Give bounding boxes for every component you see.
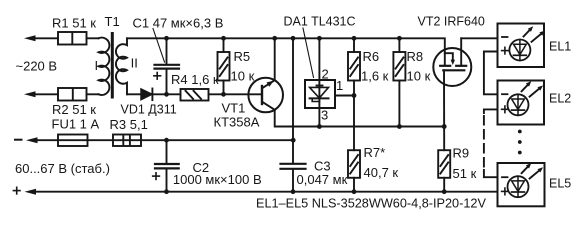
wire: DA1 pin 1 right to R6/R7 line [335,95,354,97]
node: ellipsis dot 1 between EL2 and EL5 [518,130,522,134]
node: junction C2 top on minus rail [164,138,169,143]
svg-text:1: 1 [336,78,343,93]
svg-text:R5: R5 [234,49,251,64]
node: junction R8 top rail [397,36,402,41]
LED symbol inside EL1 [509,26,545,60]
resistor R8 [393,38,405,126]
arrow: plus output arrowhead [25,189,37,195]
svg-text:EL1: EL1 [549,39,571,53]
wire: top rail left portion (secondary to VT2 drain corner) [127,38,445,65]
svg-text:10 к: 10 к [407,69,431,84]
wire: top-left AC input to R1 [33,37,58,39]
capacitor C2 [155,140,179,192]
node: ellipsis dot 3 [518,151,522,155]
label: EL2 minus terminal [502,93,508,95]
svg-text:T1: T1 [105,14,120,29]
fuse FU1 [58,135,88,147]
wire: VD1 to R4 [152,93,180,95]
node: junction R6 top rail [352,36,357,41]
LED module EL2 box [498,81,545,125]
svg-text:I: I [95,58,99,73]
node: junction VT1 emitter top rail [272,36,277,41]
wire: VT1 collector down and right along mid rail [275,110,445,127]
wire: minus output rail through FU1 and R3 [35,139,293,141]
node: junction DA1 pin3 mid rail [317,124,322,129]
svg-text:0,047 мк: 0,047 мк [297,172,348,187]
wire: plus output bottom rail [33,191,498,193]
svg-text:R1 51 к: R1 51 к [52,16,96,31]
wire: secondary bottom to VD1 [127,93,141,95]
svg-text:C1 47 мк×6,3 В: C1 47 мк×6,3 В [133,16,224,31]
label: EL1 plus terminal [502,47,509,54]
label: C2 plus polarity [153,173,160,180]
svg-text:10 к: 10 к [231,69,255,84]
label: plus sign of stabilized output [13,187,20,194]
label: EL2 plus terminal [502,106,509,113]
svg-text:II: II [131,56,138,71]
leader line from DA1 label [303,28,314,78]
wire: EL5 minus stub [484,170,498,177]
wire: EL2 plus down (dashed continuation to EL5) [484,109,498,113]
svg-text:EL1–EL5 NLS-3528WW60-4,8-IP20-: EL1–EL5 NLS-3528WW60-4,8-IP20-12V [256,197,486,211]
svg-text:3: 3 [321,108,328,123]
node: ellipsis dot 2 [518,140,522,144]
wire: C3 branch vertical from top rail [292,38,294,163]
node: junction DA1 pin2 top rail [317,36,322,41]
wire: VT2 gate-plate lead down to R9 junction [443,70,445,150]
svg-text:VT1: VT1 [222,101,246,116]
node: junction R8 bottom mid rail [397,124,402,129]
node: junction pin1 with R6/R7 line [352,93,357,98]
resistor R9 [438,150,450,192]
resistor R6 [348,38,360,80]
resistor R7 [348,150,360,192]
node: junction R4/R5/VT1 base [221,92,226,97]
svg-text:VT2 IRF640: VT2 IRF640 [418,15,485,29]
transformer T1 secondary winding II [116,38,127,94]
svg-text:КТ358А: КТ358А [214,115,260,130]
node: junction R9 bottom rail [442,189,447,194]
wire: DA1 pin 2 to top rail [318,38,320,80]
wire: VT1 emitter up to top rail [274,38,276,80]
wire: R1 to primary winding [87,37,99,39]
MOSFET VT2 [433,38,471,86]
capacitor C1 [155,38,180,94]
arrow: bottom-left input arrowhead [24,91,36,97]
svg-text:~220 В: ~220 В [16,58,58,73]
transistor VT1 [248,78,283,113]
svg-text:R4 1,6 к: R4 1,6 к [171,72,219,87]
svg-text:R6: R6 [363,49,380,64]
label: C1 plus polarity [154,73,161,80]
LED symbol inside EL2 [508,81,544,115]
svg-text:R7*: R7* [364,145,386,160]
optocoupler-style regulator DA1 box [305,80,335,108]
wire: bottom-left AC input to R2 [33,93,58,95]
resistor R2 [58,88,87,101]
node: junction C3 line top rail [291,36,296,41]
wire: top rail right portion (VT2 to EL1 minus) [461,37,497,39]
LED module EL1 box [498,24,545,68]
svg-text:60...67 В (стаб.): 60...67 В (стаб.) [15,161,110,176]
resistor R4 [181,89,209,101]
svg-text:R3 5,1: R3 5,1 [110,117,148,132]
node: junction R7 bottom rail [352,189,357,194]
wire: EL1 plus to EL2 minus [484,52,498,95]
resistor R3 [113,135,141,147]
svg-text:DA1 TL431C: DA1 TL431C [284,15,356,29]
node: junction R5 top rail [221,36,226,41]
wire: R6 bottom down to R7 (crosses mid rail) [353,81,355,151]
svg-text:40,7 к: 40,7 к [364,165,399,180]
resistor R5 [218,38,230,94]
node: junction minus rail end at C3 line [291,138,296,143]
svg-text:1,6 к: 1,6 к [361,69,389,84]
svg-text:EL5: EL5 [549,177,571,191]
node: junction VT2 lead / mid rail / R9 [442,124,447,129]
DA1 internal TL431 symbol [310,80,329,108]
LED module EL5 box [498,163,545,206]
svg-text:R2 51 к: R2 51 к [52,102,96,117]
svg-text:R9: R9 [453,146,470,161]
arrow: minus output arrowhead [26,137,38,143]
wire: DA1 pin 3 down to mid rail [318,108,320,127]
wire: R2 to primary winding [87,93,99,95]
transformer T1 primary winding I [99,38,110,95]
leader line from C1 label [153,29,165,63]
node: junction C1 top rail [164,36,169,41]
label: EL1 minus terminal [502,36,508,38]
capacitor C3 [281,164,306,192]
svg-text:VD1 Д311: VD1 Д311 [121,103,177,117]
label: EL5 minus terminal [502,176,508,178]
svg-text:1000 мк×100 В: 1000 мк×100 В [173,172,262,187]
svg-text:FU1 1 А: FU1 1 А [52,117,100,132]
label: minus sign of stabilized output [15,139,22,141]
node: junction VD1/C1 [164,92,169,97]
arrow: top-left input arrowhead [24,35,36,41]
node: junction C2 bottom rail [164,189,169,194]
node: junction C3 bottom rail [291,189,296,194]
diode VD1 [141,89,152,101]
transformer T1 core [111,32,114,99]
svg-text:2: 2 [322,67,329,82]
resistor R1 [58,32,87,45]
svg-text:51 к: 51 к [453,166,477,181]
svg-text:R8: R8 [407,49,424,64]
LED symbol inside EL5 [508,163,544,197]
label: EL5 plus terminal [502,188,509,195]
wire: R4 to VT1 base [209,93,263,95]
svg-text:EL2: EL2 [549,92,571,106]
wire: dashed series link EL2 to EL5 [483,116,485,170]
